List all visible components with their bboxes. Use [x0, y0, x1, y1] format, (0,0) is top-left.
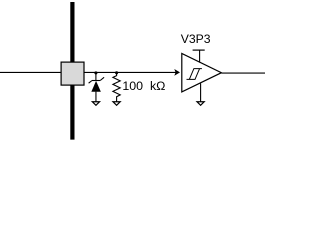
zener diode D1 [89, 73, 105, 102]
wire from box to buffer input arrow [85, 71, 178, 73]
ground arrow below buffer [197, 102, 204, 106]
node junction dot at resistor R1 [115, 71, 118, 74]
node junction dot at diode D1 [94, 71, 97, 74]
power rail T-bar [193, 49, 205, 51]
bus thick vertical line [70, 2, 74, 140]
ground arrow below diode [92, 102, 99, 106]
svg-text:100 kΩ: 100 kΩ [122, 79, 165, 93]
value label 100 kOhm [122, 79, 165, 93]
resistor R1 zigzag [113, 73, 120, 102]
wire output net to right edge [221, 72, 265, 74]
schmitt buffer U1 triangle [182, 53, 222, 92]
ground pin wire [200, 84, 202, 102]
wire input net from left edge to box [0, 71, 61, 73]
svg-text:V3P3: V3P3 [181, 32, 211, 46]
power net label V3P3 [181, 32, 211, 46]
connector box [61, 62, 84, 85]
power pin wire [199, 50, 201, 63]
ground arrow below resistor [113, 102, 120, 106]
hysteresis symbol inside buffer [187, 69, 202, 80]
input arrowhead into buffer [174, 69, 180, 76]
